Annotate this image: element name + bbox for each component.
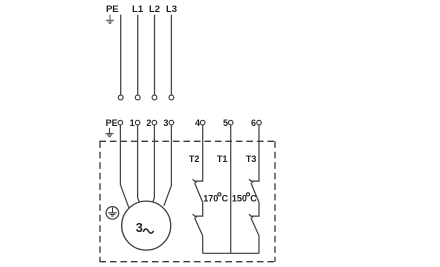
svg-text:L3: L3 <box>166 4 177 15</box>
thermal switch T2 upper blade <box>195 183 203 203</box>
svg-text:150: 150 <box>232 193 247 203</box>
svg-text:T3: T3 <box>246 154 257 164</box>
terminal 5 <box>228 120 233 125</box>
thermal switch T3 upper blade <box>251 183 259 203</box>
svg-text:170: 170 <box>203 193 218 203</box>
svg-text:L1: L1 <box>132 4 144 15</box>
label 150°C (T3 trip temperature) <box>232 193 257 204</box>
wire thermal common bus <box>203 252 259 254</box>
wire 6 to switch T3 <box>251 125 260 181</box>
svg-text:5: 5 <box>223 118 228 128</box>
wire 1 to motor <box>138 125 140 202</box>
wire PE supply lead <box>120 15 122 95</box>
terminal 4 <box>200 120 205 125</box>
svg-text:C: C <box>250 193 257 203</box>
wire T2 between contacts <box>194 202 203 216</box>
svg-text:3: 3 <box>136 220 143 235</box>
svg-text:T1: T1 <box>217 154 228 164</box>
wire L2 supply lead <box>154 15 156 95</box>
thermal switch T3 lower blade <box>251 218 259 236</box>
protective earth symbol (circled ground on motor frame) <box>106 207 119 220</box>
thermal switch T2 upper contact tick <box>193 179 197 183</box>
terminal PE (pump) <box>118 120 123 125</box>
wire 2 to motor <box>153 125 155 202</box>
motor M1 (3-phase) body <box>122 201 171 250</box>
wire PE to motor frame <box>120 125 129 209</box>
terminal 1 <box>135 120 140 125</box>
sine symbol of motor label <box>143 229 153 233</box>
terminal PE (supply end) <box>118 95 123 100</box>
svg-text:L2: L2 <box>149 4 160 15</box>
terminal 6 <box>257 120 262 125</box>
terminal L3 (supply end) <box>169 95 174 100</box>
terminal 2 <box>152 120 157 125</box>
svg-text:3: 3 <box>163 118 168 128</box>
svg-text:2: 2 <box>146 118 151 128</box>
wire L1 supply lead <box>137 15 139 95</box>
svg-text:PE: PE <box>106 118 118 128</box>
ground (earth symbol under pump PE) <box>106 128 114 137</box>
svg-text:1: 1 <box>130 118 135 128</box>
wire T2 to common <box>202 236 204 254</box>
label 170°C (T2 trip temperature) <box>203 193 228 204</box>
svg-text:6: 6 <box>251 118 256 128</box>
thermal switch T3 lower contact tick <box>249 214 253 218</box>
svg-text:4: 4 <box>195 118 200 128</box>
wire T3 between contacts <box>251 202 260 216</box>
wire 3 to motor <box>164 125 172 206</box>
thermal switch T3 upper contact tick <box>249 179 253 183</box>
thermal switch T2 lower blade <box>195 218 203 236</box>
wire L3 supply lead <box>170 15 172 95</box>
enclosure (dashed pump boundary) <box>99 141 275 261</box>
terminal L1 (supply end) <box>135 95 140 100</box>
wire 5 to thermal common <box>230 125 232 253</box>
terminal 3 <box>169 120 174 125</box>
terminal L2 (supply end) <box>152 95 157 100</box>
thermal switch T2 lower contact tick <box>193 214 197 218</box>
wire T3 to common <box>258 236 260 254</box>
svg-text:T2: T2 <box>189 154 200 164</box>
ground (earth symbol under supply PE) <box>106 15 114 24</box>
svg-text:C: C <box>222 193 229 203</box>
svg-text:PE: PE <box>106 4 119 15</box>
wire 4 to switch T2 <box>194 125 203 181</box>
